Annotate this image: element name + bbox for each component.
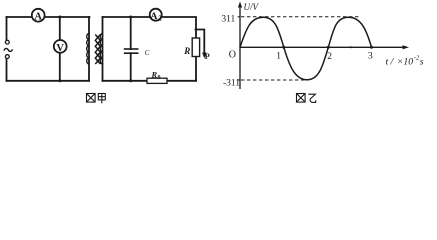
- svg-text:×10: ×10: [397, 57, 414, 68]
- wire primary bottom: [7, 80, 90, 82]
- graph x-axis: [239, 46, 403, 48]
- caption 图甲 (hand-drawn glyphs): [87, 94, 106, 104]
- node crossing t=1: [282, 46, 285, 49]
- wire transformer primary side: [88, 17, 90, 81]
- transformer secondary coil (right scallops): [100, 34, 102, 65]
- resistor R0: [147, 78, 167, 83]
- y-axis tick at 311: [238, 16, 240, 18]
- wire top-left horizontal (source to A1): [7, 16, 32, 18]
- label t/x10^-2 s: [386, 55, 424, 68]
- svg-text:O: O: [229, 50, 236, 61]
- svg-text:2: 2: [327, 52, 332, 62]
- svg-text:V: V: [56, 43, 64, 54]
- wire secondary top (to A2): [103, 16, 150, 18]
- svg-text:3: 3: [368, 51, 373, 62]
- wire voltmeter branch lower: [59, 53, 61, 81]
- junction node bottom wire / voltmeter: [58, 79, 61, 82]
- svg-text:2: 2: [158, 16, 162, 23]
- dashed level -311: [241, 79, 308, 81]
- caption 图乙 (hand-drawn glyphs): [297, 94, 316, 103]
- wire rheostat slider branch: [196, 30, 204, 54]
- wire A1 to V junction to transformer primary top: [45, 16, 90, 18]
- dashed level +311: [241, 16, 359, 18]
- svg-text:C: C: [145, 49, 150, 57]
- node crossing t=2: [327, 46, 330, 49]
- ammeter A2: [150, 9, 163, 23]
- transformer primary coil (left scallops): [87, 34, 89, 65]
- wire left edge lower: [6, 59, 8, 81]
- svg-text:R: R: [183, 46, 190, 56]
- svg-text:0: 0: [158, 75, 161, 81]
- y-axis tick at -311: [238, 79, 240, 81]
- graph y-axis: [239, 5, 241, 89]
- junction node top wire / voltmeter: [58, 16, 61, 19]
- svg-text:1: 1: [276, 52, 281, 62]
- wire secondary bottom right of R0: [167, 80, 196, 82]
- wire voltmeter branch upper: [59, 17, 61, 40]
- wire capacitor branch upper: [130, 17, 132, 49]
- svg-text:A: A: [34, 12, 42, 23]
- wire capacitor branch lower: [130, 53, 132, 81]
- junction node slider branch: [195, 28, 198, 31]
- wire secondary bottom left of R0: [103, 80, 148, 82]
- ammeter A1: [32, 9, 45, 23]
- junction node bottom wire / capacitor: [129, 79, 132, 82]
- rheostat slider arrow P: [202, 53, 206, 59]
- svg-text:U/V: U/V: [244, 2, 260, 12]
- AC source terminal upper: [5, 40, 9, 44]
- svg-text:s: s: [420, 57, 424, 68]
- wire A2 to top-right corner and down to R: [162, 17, 196, 38]
- AC source terminal lower: [5, 55, 9, 59]
- AC source tilde symbol: [4, 48, 13, 51]
- wire below R down to bottom-right corner: [195, 57, 197, 81]
- svg-text:t: t: [386, 57, 389, 68]
- voltmeter V: [54, 40, 67, 54]
- node crossing t=3: [370, 46, 373, 49]
- tick t=2.5: [350, 46, 352, 48]
- wire transformer secondary side: [102, 17, 104, 81]
- svg-text:A: A: [150, 11, 157, 22]
- rheostat R body: [192, 38, 199, 57]
- sine curve: [240, 17, 372, 80]
- svg-text:R: R: [151, 70, 158, 80]
- svg-text:P: P: [205, 52, 210, 61]
- capacitor C plates: [124, 49, 139, 53]
- wire left edge upper: [6, 17, 8, 40]
- junction node top wire / capacitor: [129, 16, 132, 19]
- transformer core braid: [95, 35, 100, 65]
- svg-text:311: 311: [221, 14, 235, 24]
